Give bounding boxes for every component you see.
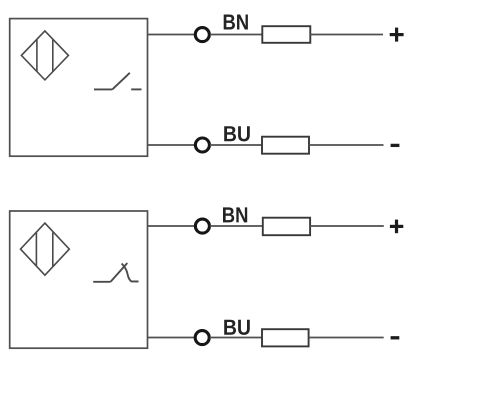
label BN (S2 brown wire) — [223, 207, 247, 222]
resistor load on S2 BN wire — [263, 218, 310, 236]
wire: S2 pin to BU terminal — [147, 337, 194, 339]
wire: resistor to - supply — [309, 144, 384, 146]
sensor S1 symbol left chord — [36, 39, 38, 72]
wire: BU terminal to resistor — [210, 337, 262, 339]
NO contact of S1: right lead — [131, 88, 141, 90]
wire: BU terminal to resistor — [210, 144, 262, 146]
NC contact of S2: hooked stationary contact — [122, 264, 139, 282]
NC contact of S2: moving arm — [111, 263, 128, 282]
NO contact of S1: moving arm — [112, 73, 130, 90]
label BN (S1 brown wire) — [224, 15, 248, 30]
terminal circle BU (S2) — [195, 331, 209, 345]
terminal circle BU (S1) — [195, 138, 209, 152]
sensor S2 body — [10, 211, 148, 348]
terminal circle BN (S1) — [195, 28, 209, 42]
wire: S1 pin to BU terminal — [147, 144, 194, 146]
NC contact of S2: left lead — [93, 281, 110, 283]
plus supply terminal (S2) — [390, 220, 403, 234]
resistor load on S1 BN wire — [262, 26, 310, 43]
plus supply terminal (S1) — [390, 28, 404, 42]
wire: BN terminal to resistor — [210, 225, 262, 227]
wire: BN terminal to resistor — [210, 34, 262, 36]
sensor S1 proximity symbol diamond — [21, 31, 68, 80]
wire: resistor to + supply — [310, 34, 383, 36]
sensor S1 symbol right chord — [52, 39, 54, 72]
label BU (S2 blue wire) — [224, 320, 250, 335]
wire: S2 pin to BN terminal — [147, 225, 194, 227]
minus supply terminal (S2) — [391, 336, 400, 339]
label BU (S1 blue wire) — [224, 126, 250, 141]
sensor S2 symbol right chord — [52, 233, 54, 267]
wire: S1 pin to BN terminal — [147, 34, 194, 36]
wire: resistor to + supply — [310, 225, 384, 227]
resistor load on S1 BU wire — [262, 137, 309, 154]
sensor S1 body — [10, 19, 148, 157]
resistor load on S2 BU wire — [262, 329, 309, 346]
terminal circle BN (S2) — [195, 219, 209, 233]
sensor S2 symbol left chord — [35, 233, 37, 267]
minus supply terminal (S1) — [391, 144, 400, 147]
wire: resistor to - supply — [309, 337, 384, 339]
sensor S2 proximity symbol diamond — [21, 223, 70, 275]
NO contact of S1: left lead — [94, 88, 112, 90]
